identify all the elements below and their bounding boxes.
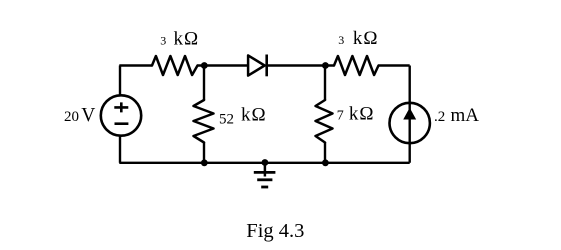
label R4 value 7 kOhm <box>337 104 375 125</box>
svg-text:3: 3 <box>338 33 344 47</box>
wire 52k branch bottom stub <box>203 143 205 163</box>
svg-text:kΩ: kΩ <box>241 104 267 125</box>
label R1 value 3 kOhm <box>160 29 199 50</box>
node A junction dot (top of 52k) <box>201 62 208 69</box>
svg-text:7: 7 <box>337 109 344 124</box>
svg-text:Fig 4.3: Fig 4.3 <box>246 220 304 242</box>
diode D1 <box>248 55 267 77</box>
wire right vertical (through current source) <box>409 66 411 163</box>
wire 7k branch bottom stub <box>324 143 326 163</box>
svg-text:mA: mA <box>451 105 480 126</box>
svg-text:V: V <box>81 105 95 126</box>
wire 7k branch top stub <box>324 66 326 101</box>
svg-text:.2: .2 <box>434 109 445 125</box>
resistor R1 3 kOhm (top left zigzag) <box>152 56 198 75</box>
ground node junction dot <box>262 159 269 166</box>
wire from R1 to diode anode <box>198 64 249 66</box>
wire left vertical top (corner to source) <box>119 66 121 96</box>
resistor R3 52 kOhm (vertical zigzag) <box>194 100 214 143</box>
node D junction dot (bottom of 7k) <box>322 159 329 166</box>
node B junction dot (top of 7k) <box>322 62 329 69</box>
voltage source V1 20V <box>101 95 141 135</box>
wire top-left corner segment <box>119 64 152 66</box>
label R3 value 52 kOhm <box>219 104 267 127</box>
current source I1 .2 mA <box>390 103 430 143</box>
resistor R2 3 kOhm (top right zigzag) <box>334 56 379 75</box>
svg-text:kΩ: kΩ <box>353 28 379 49</box>
wire bottom horizontal <box>119 162 409 164</box>
wire left vertical bottom (source to bottom wire) <box>119 136 121 163</box>
wire from R2 to top-right corner <box>379 64 410 66</box>
node C junction dot (bottom of 52k) <box>201 159 208 166</box>
label V1 value 20 V <box>64 105 95 126</box>
svg-text:52: 52 <box>219 112 234 128</box>
svg-text:kΩ: kΩ <box>174 29 200 50</box>
resistor R4 7 kOhm (vertical zigzag) <box>316 100 333 143</box>
wire 52k branch top stub <box>203 66 205 101</box>
label I1 value .2 mA <box>434 105 479 126</box>
svg-text:kΩ: kΩ <box>349 104 375 125</box>
svg-text:3: 3 <box>160 34 166 48</box>
label R2 value 3 kOhm <box>338 28 378 49</box>
ground symbol <box>254 163 276 188</box>
wire from diode cathode to R2 <box>267 64 334 66</box>
svg-text:20: 20 <box>64 109 79 125</box>
